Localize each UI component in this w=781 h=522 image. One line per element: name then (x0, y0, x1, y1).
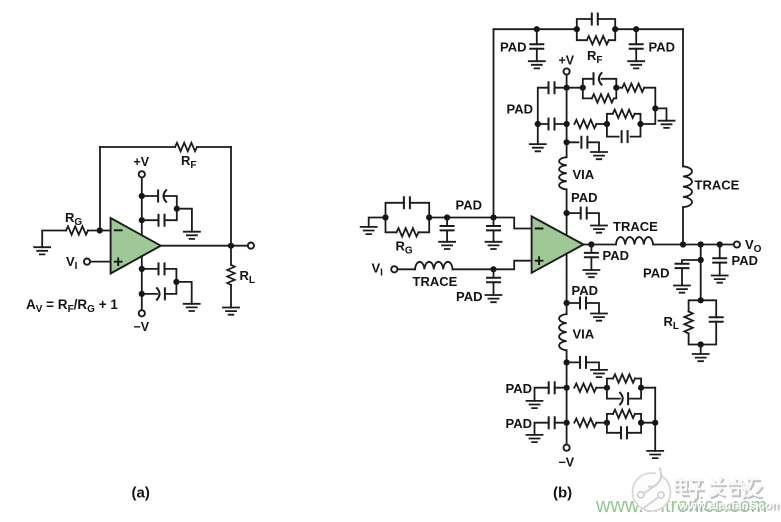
svg-text:PAD: PAD (643, 266, 669, 281)
node RF right (b) (612, 26, 618, 32)
ground -V bypass (a) (184, 304, 200, 311)
wire -V rail (a) (141, 256, 143, 310)
ground left bus (b) (530, 144, 546, 151)
wire row2 to right bus (b) (641, 108, 656, 124)
wire RL branch vertical (b) (700, 245, 702, 301)
node inverting input (a) (97, 227, 103, 233)
node left bus (b) (535, 121, 541, 127)
node PAD top-left (b) (534, 26, 540, 32)
svg-text:RL: RL (240, 268, 256, 286)
terminal VI (b) (391, 266, 397, 272)
resistor RF with parallel cap (b) (577, 14, 615, 45)
node output PAD VO (b) (717, 241, 723, 247)
parallel RC row2 (b) (607, 110, 641, 143)
node RL bottom (b) (698, 341, 704, 347)
node RF left (b) (574, 26, 580, 32)
watermark brand glyphs (675, 477, 763, 500)
node RL top (b) (698, 297, 704, 303)
svg-text:+V: +V (134, 155, 150, 169)
ground input PAD 3 (b) (486, 295, 502, 302)
wire +V bypass to ground (177, 209, 192, 232)
capacitor rowB left PAD (b) (535, 423, 567, 435)
node RG left (b) (382, 214, 388, 220)
terminal -V (b) (564, 445, 570, 451)
ground PAD below VIA (b) (591, 226, 607, 233)
node input PAD 2 (b) (490, 214, 496, 220)
parallel RL combo (b) (684, 300, 722, 344)
wire output left (b) (584, 244, 616, 246)
svg-text:−V: −V (559, 456, 575, 470)
node +V lower (a) (139, 217, 145, 223)
wire feedback left vertical (b) (493, 29, 495, 217)
terminal VO (b) (734, 241, 740, 247)
node +V upper (a) (139, 193, 145, 199)
terminal -V (a) (139, 310, 145, 316)
node +V bypass junction (a) (174, 206, 180, 212)
wire right bus vertical bottom (b) (654, 388, 656, 451)
terminal output O (a) (248, 243, 254, 249)
svg-text:PAD: PAD (649, 39, 675, 54)
node -V rowB (b) (564, 420, 570, 426)
svg-text:PAD: PAD (572, 283, 598, 298)
wire VI to TRACE (b) (398, 268, 415, 270)
ground PAD below VIA bottom (b) (591, 370, 607, 377)
ground PAD top-left (b) (529, 61, 545, 68)
op-amp U2 (b) (532, 216, 584, 272)
svg-text:RL: RL (664, 314, 680, 332)
capacitor PAD top-left (b) (536, 29, 538, 61)
capacitor output PAD (b) (590, 245, 592, 271)
node -V lower (a) (139, 291, 145, 297)
inductor TRACE input (b) (415, 262, 453, 270)
capacitor row1 left PAD (b) (538, 88, 567, 124)
wire RG to inverting input (b) (429, 218, 531, 229)
wire -V bypass to ground (176, 282, 191, 304)
svg-text:PAD: PAD (732, 253, 758, 268)
ground PAD -V pin (b) (591, 314, 607, 321)
capacitor -V bypass 1 (a) (142, 269, 177, 282)
node row1 RC right (b) (613, 85, 619, 91)
ground input PAD 2 (b) (486, 242, 502, 249)
capacitor -V bypass 2 (a) (142, 282, 177, 294)
node rowB RC right (b) (638, 420, 644, 426)
parallel RG combo (b) (386, 197, 430, 236)
ground PAD left of RL (b) (674, 286, 690, 293)
ground right bus bottom (b) (647, 451, 663, 458)
node row1 RC left (b) (580, 85, 586, 91)
capacitor PAD below VIA bottom (b) (567, 362, 599, 370)
node right bus junction (b) (652, 105, 658, 111)
resistor RF (a) (175, 143, 197, 151)
ground row3 (b) (591, 152, 607, 159)
wire +V rail upper (b) (566, 75, 568, 157)
watermark logo circle (633, 468, 671, 512)
ground input PAD 1 (b) (439, 242, 455, 249)
capacitor PAD -V pin (b) (567, 303, 599, 314)
svg-text:PAD: PAD (507, 102, 533, 117)
terminal +V (a) (139, 171, 145, 177)
ground PAD top-right (b) (628, 61, 644, 68)
node -V rowA (b) (564, 385, 570, 391)
wire output (a) (161, 245, 248, 247)
ground RL (a) (223, 308, 239, 315)
node rowA RC right (b) (638, 385, 644, 391)
node output PAD (b) (588, 241, 594, 247)
ground +V bypass (a) (184, 232, 200, 239)
svg-text:VI: VI (66, 254, 78, 272)
parallel RC row1 (b) (583, 73, 617, 103)
node output trace junction (b) (680, 241, 686, 247)
svg-text:(b): (b) (553, 485, 572, 502)
parallel RC rowA (b) (607, 374, 641, 404)
wire rowB to right bus (b) (641, 422, 655, 424)
capacitor PAD at VO (b) (719, 245, 721, 276)
node PAD -V pin (b) (564, 300, 570, 306)
capacitor PAD left of RL (b) (682, 260, 701, 286)
svg-text:PAD: PAD (603, 248, 629, 263)
wire -V rail lower (b) (566, 350, 568, 444)
svg-text:RF: RF (587, 48, 603, 66)
wire feedback right vertical (230, 147, 232, 246)
capacitor input PAD 1 (b) (446, 218, 448, 242)
wire TRACE to noninverting input (b) (453, 261, 532, 270)
svg-text:VI: VI (372, 261, 384, 279)
svg-text:PAD: PAD (571, 190, 597, 205)
resistor rowA series (b) (596, 387, 607, 389)
inductor VIA top (b) (559, 157, 567, 189)
svg-text:RG: RG (396, 239, 413, 257)
node output (a) (228, 243, 234, 249)
svg-text:PAD: PAD (456, 289, 482, 304)
svg-text:TRACE: TRACE (695, 178, 740, 193)
wire feedback top (b) (494, 28, 684, 30)
wire RL to ground (b) (700, 345, 702, 355)
wire VI to noninverting input (90, 261, 110, 263)
resistor RG (a) (66, 226, 88, 234)
wire feedback top (100, 146, 231, 148)
ground right bus (b) (659, 121, 675, 128)
svg-text:www.elecfans.com: www.elecfans.com (678, 498, 781, 512)
node +V row2 (b) (564, 121, 570, 127)
wire +V rail (a) (141, 178, 143, 236)
node input PAD 1 (b) (444, 214, 450, 220)
wire -V rail from opamp (b) (566, 254, 568, 314)
terminal VI (a) (84, 259, 90, 265)
ground PAD at VO (b) (712, 276, 728, 283)
capacitor +V bypass 1 (a) (142, 196, 177, 209)
svg-text:PAD: PAD (456, 197, 482, 212)
node PAD below VIA (b) (564, 210, 570, 216)
svg-text:TRACE: TRACE (613, 219, 658, 234)
resistor rowB series (b) (596, 422, 607, 424)
node PAD below VIA bottom (b) (564, 359, 570, 365)
svg-text:+V: +V (559, 54, 575, 68)
ground RG (a) (34, 247, 50, 254)
resistor row2 series (b) (596, 123, 607, 125)
op-amp U1 (a) (111, 218, 161, 274)
inductor TRACE right vertical (b) (683, 166, 692, 207)
wire RG input ground lead (b) (369, 218, 386, 227)
node RG right (b) (426, 214, 432, 220)
inductor VIA bottom (b) (559, 314, 567, 350)
parallel RC rowB (b) (607, 410, 641, 439)
node row2 RC left (b) (604, 121, 610, 127)
svg-text:VIA: VIA (573, 327, 595, 342)
svg-text:(a): (a) (132, 485, 150, 502)
node +V row1 (b) (564, 85, 570, 91)
wire +V rail to opamp (b) (566, 189, 568, 235)
node row2 RC right (b) (637, 121, 643, 127)
ground RG input (b) (361, 227, 377, 234)
node rowB RC left (b) (604, 420, 610, 426)
node -V upper (a) (139, 266, 145, 272)
terminal +V (b) (564, 68, 570, 74)
ground rowB left (b) (527, 435, 543, 442)
capacitor +V bypass 2 (a) (142, 209, 177, 221)
capacitor row3 PAD (b) (567, 142, 599, 152)
svg-text:PAD: PAD (506, 381, 532, 396)
wire RG to inverting input (88, 230, 111, 232)
svg-text:TRACE: TRACE (413, 274, 458, 289)
wire left bus to ground (b) (537, 124, 539, 144)
ground rowA left (b) (527, 401, 543, 408)
node right bus rowB (b) (652, 420, 658, 426)
wire feedback right vertical upper (b) (682, 29, 684, 166)
resistor row1 series (b) (616, 88, 655, 109)
capacitor PAD below VIA (b) (567, 213, 599, 225)
wire RG ground lead (42, 231, 66, 248)
wire output right (b) (653, 244, 733, 246)
node input PAD 3 (b) (490, 266, 496, 272)
node +V row3 (b) (564, 139, 570, 145)
wire row1 right to RC (b) (567, 87, 583, 89)
wire right bus to ground (b) (655, 108, 666, 120)
capacitor PAD top-right (b) (635, 29, 637, 61)
svg-text:PAD: PAD (500, 39, 526, 54)
node -V bypass junction (a) (173, 279, 179, 285)
wire feedback right vertical lower (b) (682, 207, 684, 244)
capacitor input PAD 2 (b) (493, 218, 495, 242)
node output RL branch (b) (698, 241, 704, 247)
ground output PAD (b) (583, 270, 599, 277)
capacitor input PAD 3 (b) (493, 269, 495, 295)
node PAD top-right (b) (633, 26, 639, 32)
wire rowA to right bus (b) (641, 387, 655, 389)
resistor RL (a) (230, 246, 232, 308)
node rowA RC left (b) (604, 385, 610, 391)
svg-text:PAD: PAD (506, 416, 532, 431)
svg-text:RF: RF (181, 153, 197, 171)
ground RL (b) (693, 354, 709, 361)
svg-text:−V: −V (134, 320, 150, 334)
svg-text:AV = RF/RG + 1: AV = RF/RG + 1 (26, 297, 118, 315)
node RL pad branch (b) (698, 257, 704, 263)
wire feedback left vertical (99, 147, 101, 231)
inductor TRACE output (b) (616, 237, 653, 245)
capacitor row2 left PAD (b) (538, 123, 567, 125)
svg-text:VIA: VIA (573, 167, 595, 182)
capacitor rowA left PAD (b) (535, 388, 567, 401)
